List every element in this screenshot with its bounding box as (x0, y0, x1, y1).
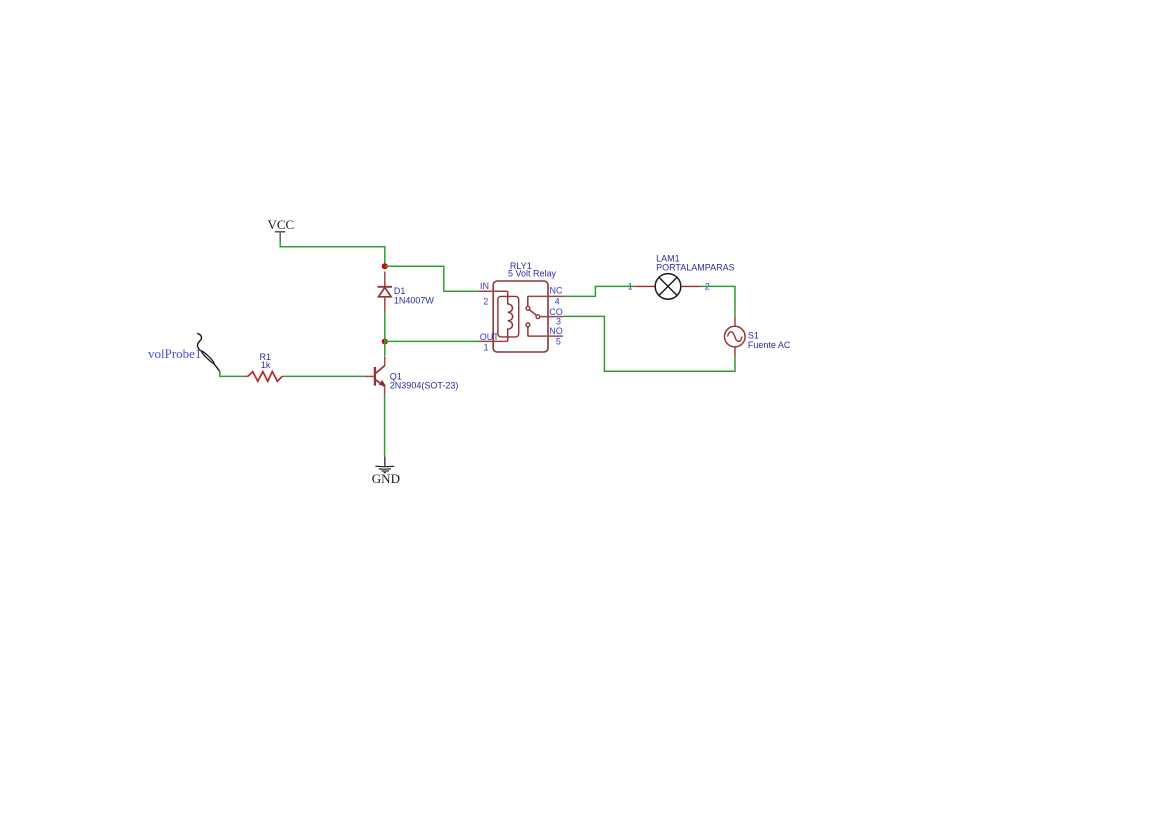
svg-text:4: 4 (555, 297, 560, 307)
svg-text:D1: D1 (394, 286, 406, 296)
svg-text:Fuente AC: Fuente AC (748, 340, 791, 350)
svg-text:1N4007W: 1N4007W (394, 296, 435, 306)
svg-text:S1: S1 (748, 330, 759, 340)
svg-text:1: 1 (628, 282, 633, 292)
svg-text:PORTALAMPARAS: PORTALAMPARAS (656, 262, 735, 272)
svg-text:NC: NC (550, 285, 563, 295)
svg-text:5: 5 (556, 337, 561, 347)
svg-text:VCC: VCC (268, 217, 295, 232)
svg-text:1: 1 (484, 343, 489, 353)
svg-text:volProbe1: volProbe1 (148, 346, 201, 361)
svg-text:IN: IN (480, 281, 489, 291)
svg-text:NO: NO (549, 326, 563, 336)
svg-text:GND: GND (372, 471, 400, 486)
svg-text:3: 3 (556, 316, 561, 326)
svg-text:2: 2 (483, 297, 488, 307)
svg-text:1k: 1k (261, 360, 271, 370)
svg-text:5 Volt Relay: 5 Volt Relay (508, 268, 557, 278)
svg-text:OUT: OUT (480, 332, 500, 342)
svg-text:2N3904(SOT-23): 2N3904(SOT-23) (390, 380, 459, 390)
